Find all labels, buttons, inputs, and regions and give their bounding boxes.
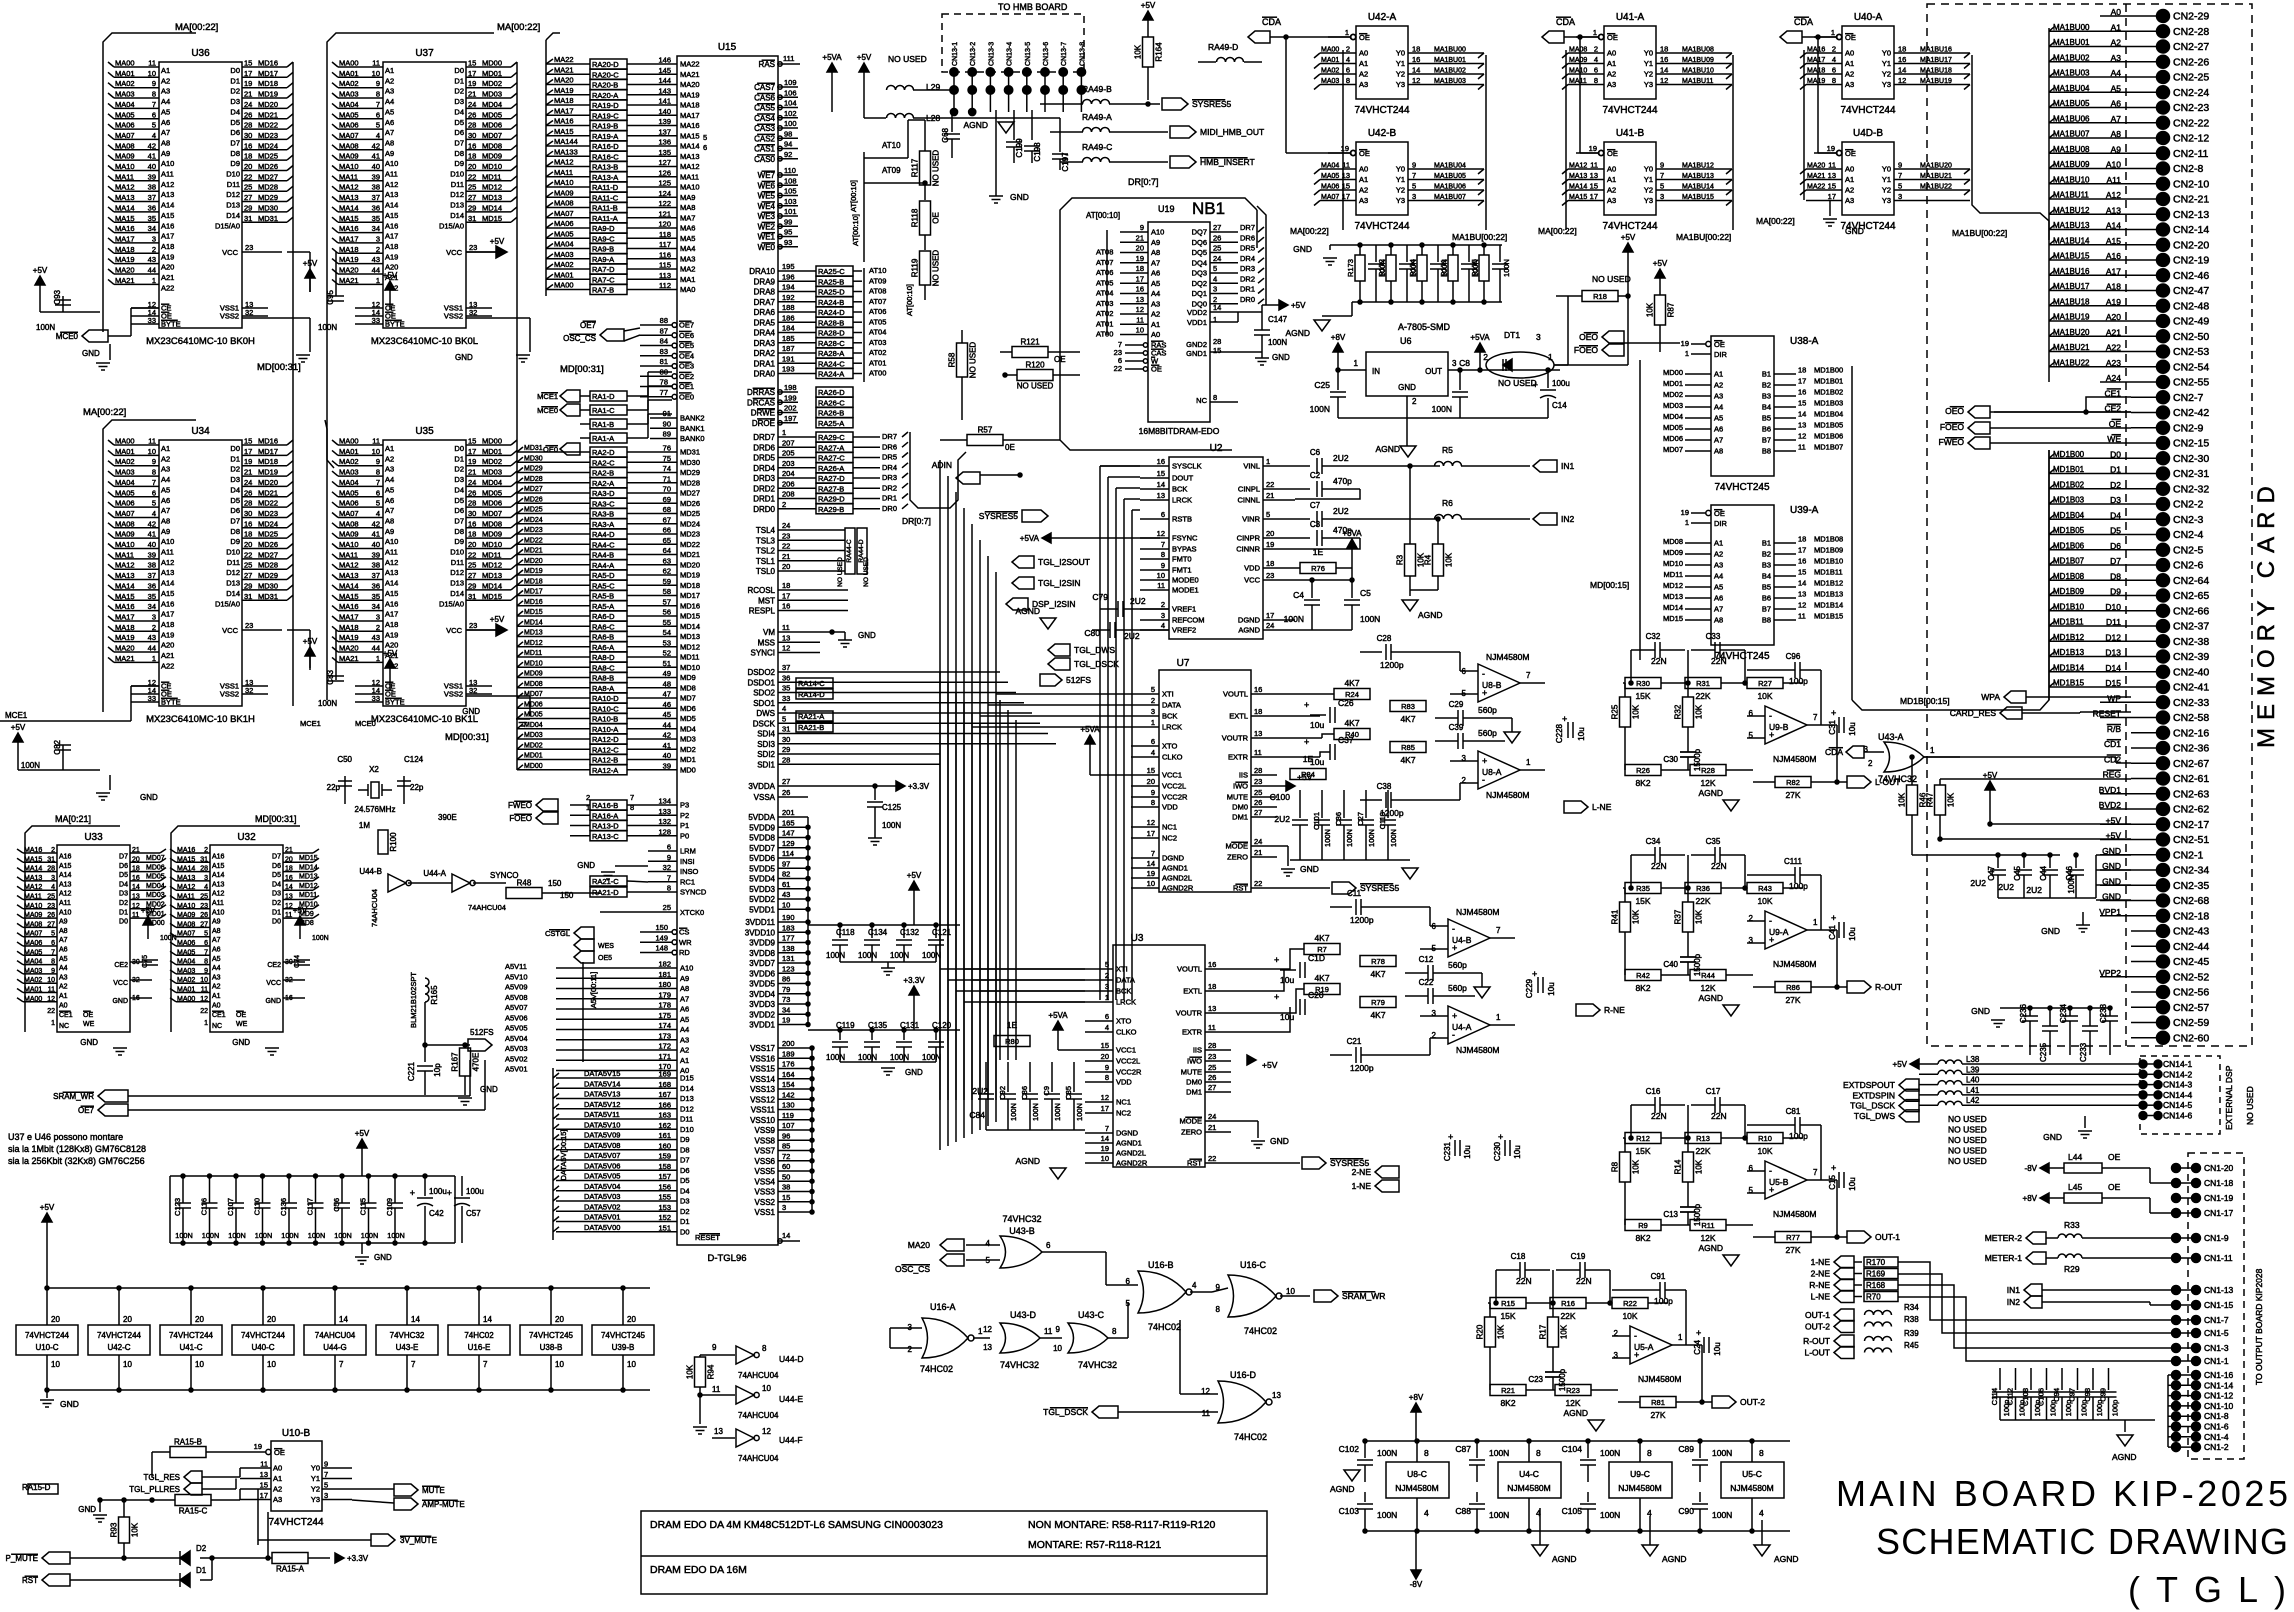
svg-text:B2: B2	[1762, 550, 1771, 559]
svg-text:SDI2: SDI2	[757, 750, 775, 759]
svg-text:5: 5	[204, 931, 208, 938]
resistor R41 10K vertical	[1620, 902, 1631, 932]
svg-text:MD1B00: MD1B00	[2053, 450, 2085, 459]
analog ground front stage	[1504, 732, 1520, 743]
svg-text:Y3: Y3	[1644, 80, 1653, 89]
resistor R17 10K vertical	[1548, 1317, 1559, 1347]
svg-text:23: 23	[245, 621, 253, 630]
svg-text:A10: A10	[1151, 228, 1164, 237]
svg-text:MA05: MA05	[339, 110, 359, 119]
svg-text:10: 10	[148, 69, 156, 78]
svg-text:DQ5: DQ5	[1192, 248, 1207, 257]
svg-text:RA21-D: RA21-D	[592, 888, 619, 897]
svg-text:8: 8	[1105, 1073, 1109, 1082]
svg-text:18: 18	[1412, 45, 1420, 54]
buffer U42-B	[1285, 37, 1287, 153]
svg-text:CINPL: CINPL	[1238, 485, 1260, 494]
svg-text:D6: D6	[230, 506, 240, 515]
svg-text:Y0: Y0	[311, 1464, 320, 1473]
svg-text:52: 52	[663, 649, 671, 658]
svg-text:100N: 100N	[1268, 338, 1287, 347]
svg-text:MD1B11: MD1B11	[1814, 568, 1843, 577]
svg-text:MD19: MD19	[524, 568, 543, 575]
svg-text:79: 79	[782, 985, 790, 994]
svg-text:+5V: +5V	[490, 237, 505, 246]
svg-text:C45: C45	[2013, 865, 2022, 880]
svg-text:D0: D0	[454, 444, 464, 453]
svg-text:DM1: DM1	[1232, 813, 1248, 822]
svg-text:D14: D14	[680, 1084, 694, 1093]
svg-text:54: 54	[663, 628, 671, 637]
svg-text:CDA: CDA	[1794, 17, 1813, 27]
svg-text:A3: A3	[680, 1035, 689, 1044]
resistor RA15-B	[170, 1447, 206, 1458]
svg-text:VSS3: VSS3	[755, 1188, 776, 1197]
svg-text:187: 187	[782, 344, 795, 353]
svg-text:MD1B07: MD1B07	[2053, 557, 2085, 566]
svg-text:MA16: MA16	[177, 847, 195, 854]
svg-text:9: 9	[376, 457, 380, 466]
svg-text:Y3: Y3	[311, 1495, 320, 1504]
svg-text:B2: B2	[1762, 381, 1771, 390]
svg-text:U8-A: U8-A	[1482, 767, 1502, 777]
svg-text:RA5-D: RA5-D	[592, 571, 615, 580]
svg-text:D11: D11	[680, 1115, 693, 1124]
capacitor C25 100N	[1337, 370, 1339, 390]
svg-text:100N: 100N	[361, 1231, 378, 1240]
svg-text:17: 17	[782, 591, 790, 600]
svg-text:117: 117	[659, 240, 671, 249]
svg-text:31: 31	[244, 592, 252, 601]
connector pin CN2-3	[2131, 518, 2157, 520]
svg-text:C7: C7	[1310, 501, 1321, 510]
svg-text:156: 156	[658, 1182, 671, 1191]
svg-text:RESPL: RESPL	[749, 607, 776, 616]
svg-text:DATA: DATA	[1162, 701, 1181, 710]
svg-text:176: 176	[782, 1060, 795, 1069]
connector pin CN2-42	[2131, 412, 2157, 414]
svg-text:MA03: MA03	[115, 468, 135, 477]
svg-text:D4: D4	[454, 485, 464, 494]
connector pin CN2-8	[2131, 168, 2157, 170]
svg-text:RA24-B: RA24-B	[818, 298, 844, 307]
svg-text:C27: C27	[1356, 812, 1365, 826]
svg-text:AT05: AT05	[869, 317, 886, 326]
svg-text:2U2: 2U2	[1274, 814, 1290, 824]
flag CDA to U43-A	[1846, 746, 1864, 758]
analog ground U3	[1050, 1168, 1066, 1179]
analog ground R3 R4	[1402, 600, 1418, 611]
svg-text:A10: A10	[59, 909, 72, 916]
connector pin CN2-65	[2131, 595, 2157, 597]
svg-text:A7: A7	[1714, 605, 1723, 614]
flag MIDI_HMB_OUT	[1170, 126, 1196, 138]
svg-text:D5: D5	[119, 872, 128, 879]
svg-text:CN2-51: CN2-51	[2173, 834, 2209, 846]
ground U32	[265, 1047, 279, 1049]
resistor R78 4K7	[1360, 956, 1396, 967]
svg-text:MA1BU[00:22]: MA1BU[00:22]	[1952, 228, 2007, 238]
svg-text:CN2-66: CN2-66	[2173, 605, 2209, 617]
svg-text:DATA5V01: DATA5V01	[584, 1213, 620, 1222]
svg-text:XTI: XTI	[1162, 690, 1174, 699]
svg-text:74VHCT244: 74VHCT244	[268, 1517, 323, 1528]
svg-text:A19: A19	[161, 630, 174, 639]
svg-text:NC: NC	[59, 1023, 69, 1030]
svg-text:C199: C199	[1015, 138, 1024, 158]
spare gate box U38-B 74VHCT245	[550, 1288, 552, 1325]
svg-text:R57: R57	[978, 426, 993, 435]
svg-text:RA16-B: RA16-B	[592, 801, 618, 810]
flag MCE0	[82, 330, 108, 342]
svg-text:AT06: AT06	[1096, 268, 1113, 277]
svg-text:11: 11	[285, 912, 292, 919]
svg-text:R100: R100	[389, 832, 398, 852]
svg-text:R76: R76	[1311, 564, 1325, 573]
svg-text:58: 58	[663, 587, 671, 596]
svg-text:D6: D6	[272, 863, 281, 870]
svg-text:A8: A8	[385, 138, 394, 147]
svg-text:MA08: MA08	[24, 921, 42, 928]
capacitor C198	[1031, 110, 1033, 140]
svg-text:D10: D10	[450, 170, 464, 179]
svg-text:Y0: Y0	[1644, 49, 1653, 58]
svg-text:MD18: MD18	[680, 581, 700, 590]
svg-text:CN2-50: CN2-50	[2173, 331, 2209, 343]
svg-text:D3: D3	[454, 475, 464, 484]
svg-text:SYNCI: SYNCI	[751, 649, 775, 658]
svg-text:MD17: MD17	[524, 589, 543, 596]
svg-text:A5: A5	[1714, 583, 1723, 592]
svg-text:DRA1: DRA1	[754, 359, 776, 368]
capacitors C118 C134 C132 C121 100N	[808, 924, 960, 926]
svg-text:207: 207	[782, 438, 795, 447]
connector pin CN1-14	[2176, 1384, 2196, 1386]
svg-text:5: 5	[703, 133, 707, 142]
svg-text:sia la 256Kbit (32Kx8) GM76C25: sia la 256Kbit (32Kx8) GM76C256	[8, 1156, 145, 1166]
svg-text:MD29: MD29	[524, 466, 543, 473]
svg-text:A6: A6	[59, 947, 68, 954]
svg-text:14: 14	[1798, 579, 1806, 588]
svg-text:21: 21	[468, 90, 476, 99]
svg-text:21: 21	[1254, 848, 1262, 857]
svg-text:DRD2: DRD2	[753, 484, 775, 493]
svg-text:6: 6	[152, 488, 156, 497]
capacitor C32 22N	[1654, 642, 1656, 658]
svg-text:MD02: MD02	[482, 79, 502, 88]
svg-text:11: 11	[1590, 161, 1598, 170]
svg-text:Y2: Y2	[1396, 70, 1405, 79]
svg-text:A7: A7	[161, 128, 170, 137]
svg-text:MA7: MA7	[680, 213, 695, 222]
connector pin CN2-21	[2131, 198, 2157, 200]
capacitor C6 2U2	[1295, 465, 1310, 467]
svg-text:155: 155	[658, 1193, 671, 1202]
svg-text:3: 3	[1412, 192, 1416, 201]
svg-text:DATA5V05: DATA5V05	[584, 1172, 620, 1181]
svg-text:77: 77	[660, 388, 668, 397]
svg-text:180: 180	[658, 980, 671, 989]
svg-text:IN2: IN2	[1561, 514, 1575, 524]
svg-text:MA03: MA03	[115, 90, 135, 99]
svg-text:MA05: MA05	[554, 229, 574, 238]
svg-text:A3: A3	[1845, 80, 1854, 89]
svg-text:MA17: MA17	[339, 612, 359, 621]
resistor R28 12K	[1690, 765, 1726, 776]
svg-text:C26: C26	[1338, 698, 1354, 708]
resistor R87 10K	[1655, 295, 1666, 325]
svg-text:1: 1	[1831, 28, 1835, 37]
svg-text:MA12: MA12	[115, 183, 135, 192]
svg-text:CN2-10: CN2-10	[2173, 178, 2209, 190]
svg-text:MD1B00: MD1B00	[1814, 366, 1843, 375]
svg-text:U42-B: U42-B	[1368, 128, 1397, 139]
svg-text:MD04: MD04	[524, 722, 543, 729]
svg-text:A6: A6	[680, 1005, 689, 1014]
svg-text:MA11: MA11	[554, 168, 573, 177]
svg-text:13: 13	[1798, 421, 1806, 430]
svg-text:38: 38	[148, 183, 156, 192]
svg-text:MD14: MD14	[1663, 603, 1683, 612]
svg-text:NO USED: NO USED	[969, 342, 978, 379]
svg-text:TSL1: TSL1	[756, 557, 776, 566]
connector pin CN2-55	[2131, 381, 2157, 383]
svg-text:D2: D2	[680, 1207, 690, 1216]
capacitor C23 1500p	[1545, 1371, 1561, 1373]
svg-text:MA1BU14: MA1BU14	[2053, 236, 2090, 245]
svg-text:RA8-B: RA8-B	[592, 674, 614, 683]
svg-text:C233: C233	[2079, 1042, 2088, 1062]
svg-text:MA1BU02: MA1BU02	[1434, 68, 1466, 75]
svg-text:WE6: WE6	[758, 181, 776, 190]
svg-text:3: 3	[1213, 285, 1217, 294]
svg-text:MA00: MA00	[115, 437, 135, 446]
power -8V CN1 + inductor L44	[2040, 1163, 2049, 1173]
svg-text:33: 33	[148, 316, 156, 325]
svg-text:MA3: MA3	[680, 254, 695, 263]
svg-text:A16: A16	[212, 854, 225, 861]
flag IN1	[1533, 460, 1557, 472]
svg-text:AT07: AT07	[1096, 258, 1113, 267]
svg-text:RA7-D: RA7-D	[592, 265, 615, 274]
ground VM	[838, 639, 852, 641]
connector pin CN2-4	[2131, 534, 2157, 536]
U15 DRD pins with RA27/RA29 arrays	[778, 436, 816, 438]
svg-text:15: 15	[1101, 1041, 1109, 1050]
svg-text:A1: A1	[1359, 175, 1368, 184]
analog ground front stage	[1474, 987, 1490, 998]
svg-text:MD05: MD05	[482, 488, 502, 497]
svg-text:157: 157	[658, 1172, 671, 1181]
wire VSS U36	[242, 317, 310, 319]
svg-text:A2: A2	[59, 984, 68, 991]
wire bus outline U33	[25, 826, 120, 1032]
power +5V U37 VCC	[389, 290, 391, 304]
svg-text:C25: C25	[1314, 380, 1330, 390]
svg-text:AT02: AT02	[869, 348, 886, 357]
svg-text:RA9-A: RA9-A	[592, 255, 614, 264]
resistor R85 4K7	[1390, 742, 1426, 753]
flag 2-NE	[1375, 1166, 1399, 1178]
svg-text:20: 20	[1266, 529, 1274, 538]
svg-text:CN2-42: CN2-42	[2173, 407, 2209, 419]
svg-text:9: 9	[667, 853, 671, 862]
svg-text:A10: A10	[161, 537, 174, 546]
svg-text:A18: A18	[385, 620, 398, 629]
svg-text:NJM4580M: NJM4580M	[1486, 790, 1529, 800]
svg-text:7: 7	[411, 1360, 416, 1369]
svg-text:90: 90	[663, 419, 671, 428]
svg-text:+5V: +5V	[383, 271, 398, 280]
svg-text:MA09: MA09	[339, 530, 359, 539]
svg-text:7: 7	[339, 1360, 344, 1369]
svg-text:A4: A4	[161, 475, 170, 484]
svg-text:VDD: VDD	[1116, 1078, 1132, 1087]
svg-text:A8: A8	[161, 138, 170, 147]
svg-text:91: 91	[663, 409, 671, 418]
svg-text:D0: D0	[272, 919, 281, 926]
svg-text:38: 38	[372, 183, 380, 192]
svg-text:142: 142	[782, 1090, 795, 1099]
svg-text:18: 18	[244, 530, 252, 539]
svg-text:MD1B10: MD1B10	[1814, 557, 1843, 566]
svg-text:MA1BU17: MA1BU17	[1920, 57, 1952, 64]
svg-text:A1: A1	[161, 66, 170, 75]
svg-text:MA16: MA16	[115, 602, 135, 611]
svg-text:A12: A12	[161, 180, 174, 189]
svg-text:R58: R58	[948, 352, 957, 367]
svg-text:MA06: MA06	[24, 940, 42, 947]
DRAM U19 NB1 16M8BITDRAM-EDO	[1060, 198, 1257, 230]
svg-text:MA15: MA15	[554, 127, 574, 136]
svg-text:4: 4	[1594, 55, 1598, 64]
svg-text:RA28-B: RA28-B	[818, 318, 844, 327]
svg-text:A13: A13	[161, 568, 174, 577]
svg-text:A2: A2	[1845, 186, 1854, 195]
wire DGND AGND U2	[1295, 629, 1312, 631]
svg-text:28: 28	[782, 755, 790, 764]
svg-text:D13: D13	[226, 201, 240, 210]
svg-text:43: 43	[372, 633, 380, 642]
resistors R170 R169 R168 R70 NO USED	[1864, 1257, 1898, 1267]
bus MA vertical U40	[1803, 50, 1805, 200]
svg-text:MD27: MD27	[524, 486, 543, 493]
connector pin CN2-54	[2131, 366, 2157, 368]
svg-text:21: 21	[132, 847, 140, 854]
svg-text:GND: GND	[1272, 353, 1290, 362]
svg-text:MA15: MA15	[115, 592, 135, 601]
svg-text:DATA5V03: DATA5V03	[584, 1192, 620, 1201]
svg-text:63: 63	[663, 556, 671, 565]
svg-text:96: 96	[782, 1131, 790, 1140]
svg-text:R121: R121	[1020, 338, 1040, 347]
svg-text:CN2-4: CN2-4	[2173, 529, 2204, 541]
svg-text:200: 200	[782, 1039, 795, 1048]
svg-text:12: 12	[285, 903, 293, 910]
U19 RAS CAS W OE pins	[1125, 344, 1143, 346]
svg-text:2U2: 2U2	[1998, 882, 2014, 892]
svg-text:59: 59	[663, 577, 671, 586]
svg-text:A14: A14	[161, 579, 174, 588]
svg-text:DRA3: DRA3	[754, 339, 776, 348]
svg-text:8: 8	[1594, 76, 1598, 85]
connector pin CN1-17	[2176, 1212, 2196, 1214]
wire DT1 to +5V	[1627, 296, 1629, 365]
svg-text:16: 16	[1157, 457, 1165, 466]
svg-text:MA21: MA21	[1807, 173, 1825, 180]
svg-text:5VDD5: 5VDD5	[749, 864, 775, 873]
svg-text:MD1B06: MD1B06	[2053, 541, 2085, 550]
svg-text:MA1BU22: MA1BU22	[1920, 184, 1952, 191]
U19 VDD pins	[1210, 311, 1238, 313]
svg-text:MA19: MA19	[115, 633, 135, 642]
svg-text:A1: A1	[1607, 59, 1616, 68]
svg-text:CN2-48: CN2-48	[2173, 300, 2209, 312]
svg-text:MD09: MD09	[524, 671, 543, 678]
svg-text:50: 50	[782, 1172, 790, 1181]
ground U34	[109, 775, 111, 790]
resistor R119 NO USED	[920, 251, 931, 285]
svg-text:D9: D9	[454, 537, 464, 546]
svg-text:18: 18	[1798, 535, 1806, 544]
svg-text:D0: D0	[454, 66, 464, 75]
svg-text:MA8: MA8	[680, 203, 695, 212]
svg-text:U37 e U46 possono montare: U37 e U46 possono montare	[8, 1132, 123, 1142]
svg-text:RA10-D: RA10-D	[592, 694, 619, 703]
svg-text:RA13-B: RA13-B	[592, 163, 618, 172]
svg-text:MD18: MD18	[258, 79, 278, 88]
wire bundle U15 to DACs	[939, 672, 941, 1150]
svg-text:5VDD2: 5VDD2	[749, 895, 775, 904]
svg-text:D7: D7	[230, 516, 240, 525]
svg-text:MA11: MA11	[115, 550, 134, 559]
flag 512FS mid	[1040, 674, 1062, 686]
svg-text:15: 15	[468, 437, 476, 446]
svg-text:A7: A7	[59, 937, 68, 944]
svg-text:R6: R6	[1442, 498, 1453, 508]
svg-text:U16-E: U16-E	[468, 1343, 491, 1352]
capacitor C2 470p	[1295, 488, 1310, 490]
capacitor C95 100N	[335, 252, 337, 296]
svg-text:MA10: MA10	[24, 903, 42, 910]
svg-text:5: 5	[376, 499, 380, 508]
connector pin CN1-16	[2176, 1374, 2196, 1376]
svg-text:OE: OE	[932, 212, 941, 224]
svg-text:2: 2	[1594, 45, 1598, 54]
svg-text:MA15: MA15	[1569, 194, 1587, 201]
svg-text:DRA6: DRA6	[754, 308, 776, 317]
svg-text:100N: 100N	[281, 1231, 298, 1240]
svg-text:D12: D12	[450, 190, 464, 199]
svg-text:WES: WES	[598, 943, 614, 950]
connector pin CN1-2	[2176, 1446, 2196, 1448]
svg-text:MA18: MA18	[115, 623, 135, 632]
flag TGL_I2SOUT	[1012, 556, 1034, 568]
connector pin CN1-20	[2176, 1167, 2196, 1169]
resistors RA21-C RA21-D	[590, 876, 627, 886]
svg-text:26: 26	[244, 110, 252, 119]
svg-text:MD13: MD13	[482, 193, 502, 202]
svg-text:MA16: MA16	[680, 121, 700, 130]
svg-text:MA1BU08: MA1BU08	[1682, 47, 1714, 54]
spare gate box U39-B 74VHCT245	[622, 1288, 624, 1325]
svg-text:10: 10	[1136, 326, 1144, 335]
svg-text:MD13: MD13	[680, 632, 700, 641]
resistor R15 15K	[1490, 1298, 1526, 1309]
svg-text:DGND: DGND	[1162, 854, 1185, 863]
svg-text:1: 1	[1345, 28, 1349, 37]
svg-text:4: 4	[152, 131, 156, 140]
